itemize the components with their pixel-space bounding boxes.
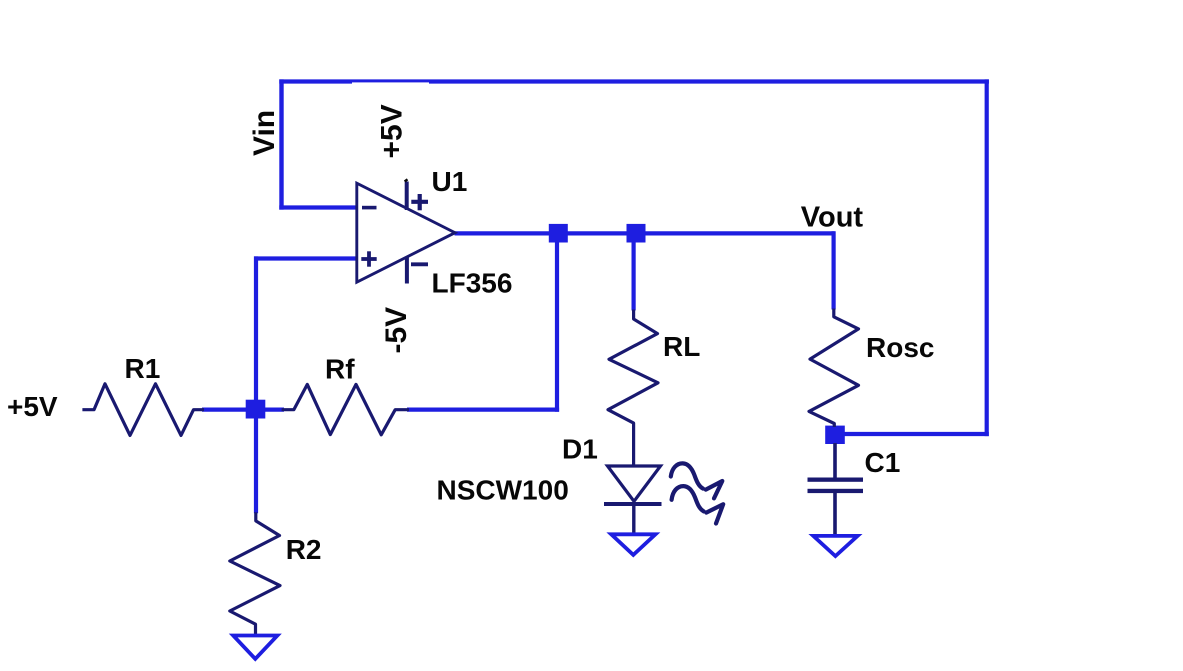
svg-text:Vout: Vout bbox=[801, 201, 864, 233]
svg-text:LF356: LF356 bbox=[432, 268, 513, 299]
label C1 bbox=[865, 447, 901, 478]
op-amp U1 triangle bbox=[357, 183, 455, 282]
svg-text:D1: D1 bbox=[562, 434, 598, 465]
LED light emission arrows bbox=[671, 463, 723, 523]
svg-text:+5V: +5V bbox=[7, 391, 58, 422]
wire: Vout drop to Rosc bbox=[831, 231, 835, 309]
label D1 bbox=[562, 434, 598, 465]
wire: inverting input horizontal bbox=[279, 205, 357, 209]
wire: feedback bottom horizontal to C1 node bbox=[834, 432, 989, 436]
wire: right feedback vertical bbox=[985, 79, 989, 436]
node: output junction 2 bbox=[627, 224, 646, 243]
resistor RL bbox=[608, 310, 658, 467]
op-amp non-inverting input marker bbox=[361, 251, 376, 266]
wire: node down to R2 bbox=[254, 417, 258, 513]
wire: top feedback horizontal (Vin net) bbox=[279, 82, 989, 96]
label NSCW100 bbox=[437, 475, 569, 506]
svg-text:R1: R1 bbox=[125, 353, 161, 384]
capacitor C1 bbox=[808, 443, 864, 537]
wire: node to Rf bbox=[263, 408, 284, 412]
ground (below R2) bbox=[233, 636, 277, 659]
wire: inverting-input vertical riser (Vin net) bbox=[279, 79, 283, 209]
ground (below C1) bbox=[813, 536, 857, 556]
svg-text:-5V: -5V bbox=[380, 307, 413, 354]
wire: R1 to node bbox=[202, 408, 250, 412]
op-amp negative supply pin bbox=[407, 258, 428, 284]
wire: non-inverting input horizontal bbox=[254, 256, 358, 260]
resistor Rf bbox=[282, 384, 409, 434]
label Rosc bbox=[866, 332, 934, 363]
resistor R1 bbox=[82, 384, 204, 436]
svg-text:+5V: +5V bbox=[376, 104, 409, 158]
label RL bbox=[663, 331, 700, 362]
op-amp inverting input marker bbox=[362, 206, 377, 210]
svg-text:R2: R2 bbox=[286, 534, 322, 565]
label R2 bbox=[286, 534, 322, 565]
label +5V (left source) bbox=[7, 391, 58, 422]
wire: non-inverting input vertical riser bbox=[254, 256, 258, 409]
label Vout bbox=[801, 201, 864, 233]
node: output junction 1 bbox=[549, 224, 568, 243]
resistor Rosc bbox=[809, 309, 859, 428]
svg-text:Rosc: Rosc bbox=[866, 332, 934, 363]
svg-text:Vin: Vin bbox=[248, 110, 281, 156]
label -5V supply (rotated, below op-amp) bbox=[380, 307, 413, 354]
node: input divider junction bbox=[246, 400, 266, 419]
svg-text:C1: C1 bbox=[865, 447, 901, 478]
svg-text:NSCW100: NSCW100 bbox=[437, 475, 569, 506]
node: Rosc/C1 junction bbox=[825, 426, 845, 444]
resistor R2 bbox=[230, 512, 280, 636]
wire: op-amp output horizontal (Vout net) bbox=[455, 231, 835, 235]
diode D1 (LED NSCW100) bbox=[604, 466, 662, 536]
op-amp positive supply pin bbox=[405, 179, 428, 210]
label Rf bbox=[325, 353, 355, 384]
svg-text:Rf: Rf bbox=[325, 353, 355, 384]
label U1 bbox=[432, 166, 468, 197]
label R1 bbox=[125, 353, 161, 384]
label Vin (rotated) bbox=[248, 110, 281, 156]
ground (below D1) bbox=[611, 534, 655, 555]
label LF356 bbox=[432, 268, 513, 299]
wire: output node drop to RL bbox=[631, 235, 635, 311]
svg-text:RL: RL bbox=[663, 331, 700, 362]
wire: Rf to output (horizontal + vertical riser) bbox=[407, 233, 559, 412]
svg-text:U1: U1 bbox=[432, 166, 468, 197]
label +5V supply (rotated, above op-amp) bbox=[376, 104, 409, 158]
